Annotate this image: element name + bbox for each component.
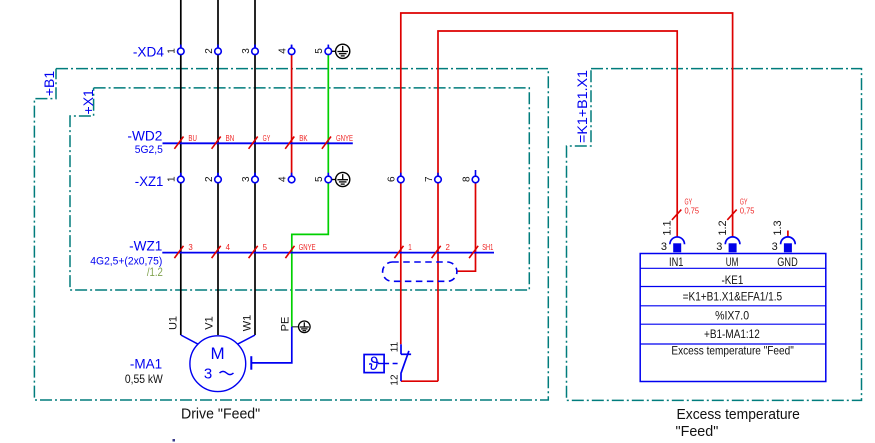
svg-text:4: 4: [277, 176, 288, 182]
svg-text:1: 1: [167, 176, 178, 182]
cable mark BU: [174, 133, 197, 149]
svg-text:PE: PE: [280, 317, 292, 332]
cable mark BK: [285, 133, 308, 149]
svg-text:UM: UM: [726, 255, 739, 269]
svg-text:8: 8: [461, 176, 472, 182]
cable mark 3: [174, 242, 193, 258]
cable mark 5: [249, 242, 268, 258]
terminal XZ1:8: [461, 170, 479, 183]
svg-text:-XZ1: -XZ1: [135, 173, 164, 189]
svg-text:3: 3: [204, 366, 212, 383]
terminal XZ1:2: [204, 173, 222, 183]
svg-text:7: 7: [424, 176, 435, 182]
thermal contact: [401, 344, 411, 381]
svg-text:3: 3: [716, 241, 722, 253]
KE1 divider 1: [640, 267, 826, 269]
wire 5 green XD4:5 to XZ1:5: [327, 47, 329, 177]
terminal XD4:2: [204, 45, 222, 55]
svg-text:IN1: IN1: [669, 255, 684, 269]
cable mark BN: [212, 133, 235, 149]
KE1 divider 3: [640, 305, 826, 307]
motor tilde: [220, 371, 234, 374]
motor PE terminal bar: [250, 356, 252, 370]
svg-text:+B1-MA1:12: +B1-MA1:12: [704, 327, 760, 341]
location box =K1+B1.X1: [567, 69, 862, 401]
svg-text:%IX7.0: %IX7.0: [715, 308, 749, 322]
svg-text:V1: V1: [203, 316, 215, 329]
svg-text:5: 5: [314, 176, 325, 182]
PE symbol at XZ1: [332, 172, 350, 186]
cable mark GNYE: [322, 133, 353, 149]
terminal XZ1:5: [314, 176, 332, 183]
svg-text:6: 6: [387, 176, 398, 182]
svg-text:1.2: 1.2: [717, 220, 729, 235]
svg-text:GNYE: GNYE: [299, 242, 316, 252]
svg-text:ϑ: ϑ: [369, 354, 379, 374]
svg-text:Excess temperature: Excess temperature: [677, 407, 800, 423]
svg-text:=K1+B1.X1: =K1+B1.X1: [574, 70, 590, 143]
svg-text:-XD4: -XD4: [133, 44, 164, 60]
motor earth connector: [292, 326, 299, 328]
svg-text:3: 3: [188, 242, 193, 252]
svg-text:M: M: [211, 344, 225, 363]
svg-text:5G2,5: 5G2,5: [135, 144, 163, 156]
svg-text:+X1: +X1: [80, 89, 96, 115]
KE1 divider 2: [640, 286, 826, 288]
svg-text:SH1: SH1: [482, 242, 493, 252]
svg-text:3: 3: [772, 241, 778, 253]
svg-text:2: 2: [204, 176, 215, 182]
motor -MA1 leads blue: [181, 335, 255, 344]
wire L1 black vertical: [180, 0, 182, 335]
wire red loop XZ1:6 to KE1 UM and thermal contact 11: [401, 13, 733, 344]
svg-text:Excess temperature "Feed": Excess temperature "Feed": [671, 344, 793, 358]
device box -KE1: [640, 254, 826, 382]
cable mark SH1: [469, 242, 493, 258]
cable mark GY: [249, 133, 271, 149]
svg-text:1: 1: [167, 48, 178, 54]
svg-text:5: 5: [314, 48, 325, 54]
wire GNYE green XZ1:5 to motor PE: [292, 183, 329, 327]
pin 1.1: [661, 220, 685, 253]
svg-text:3: 3: [661, 241, 667, 253]
stray dot: [173, 439, 176, 442]
thermal sensor F box: [364, 354, 384, 374]
location box +X1: [70, 88, 529, 290]
cable -WZ1 line: [162, 252, 494, 254]
svg-text:BN: BN: [226, 133, 235, 143]
svg-text:2: 2: [204, 48, 215, 54]
svg-text:=K1+B1.X1&EFA1/1.5: =K1+B1.X1&EFA1/1.5: [683, 290, 783, 304]
svg-text:1.1: 1.1: [661, 220, 673, 235]
thermal dashed link: [384, 363, 400, 365]
svg-text:12: 12: [390, 374, 401, 386]
svg-text:-MA1: -MA1: [130, 355, 163, 371]
wire L3 black vertical: [254, 0, 256, 335]
pin 1.2: [716, 220, 740, 253]
cable mark GNYE2: [285, 242, 315, 258]
svg-text:4: 4: [226, 242, 231, 252]
svg-text:BU: BU: [188, 133, 197, 143]
svg-text:GY: GY: [263, 133, 271, 143]
motor -MA1 circle: [190, 336, 246, 392]
svg-text:GNYE: GNYE: [336, 133, 353, 143]
svg-text:+B1: +B1: [41, 71, 57, 97]
svg-text:0,75: 0,75: [740, 205, 755, 215]
wire red loop XZ1:7 to KE1 IN1 and thermal bottom: [438, 31, 677, 381]
svg-text:GND: GND: [777, 255, 798, 269]
motor earth symbol: [299, 321, 311, 333]
terminal XZ1:4: [277, 176, 295, 183]
KE1 divider 4: [640, 323, 826, 325]
terminal connection stubs: [181, 45, 438, 177]
pin 1.3: [772, 220, 796, 253]
PE symbol at XD4: [332, 44, 350, 58]
KE1 divider 5: [640, 343, 826, 345]
terminal XZ1:6: [387, 176, 405, 183]
svg-text:-WZ1: -WZ1: [129, 237, 162, 253]
shield capsule: [383, 262, 457, 281]
terminal XD4:3: [241, 45, 258, 55]
svg-text:-KE1: -KE1: [722, 273, 744, 287]
wire red shield drain: [457, 183, 476, 272]
wire 4 red XD4:4 to XZ1:4: [291, 47, 293, 177]
svg-text:0,55 kW: 0,55 kW: [125, 372, 163, 386]
svg-text:-WD2: -WD2: [127, 127, 162, 143]
svg-text:Drive "Feed": Drive "Feed": [181, 406, 260, 422]
svg-text:U1: U1: [168, 316, 180, 330]
terminal XD4:1: [167, 45, 185, 55]
wire mark GY 0,75 pin1.2: [727, 197, 754, 220]
svg-text:0,75: 0,75: [685, 205, 700, 215]
wire mark GY 0,75 pin1.1: [672, 197, 699, 220]
cable -WD2 line: [163, 142, 353, 144]
svg-text:3: 3: [241, 176, 252, 182]
svg-text:W1: W1: [241, 315, 253, 332]
terminal XD4:4: [277, 45, 295, 55]
wire red bottom link contact 12: [401, 380, 438, 382]
wire red stub GND pin 1.3: [787, 231, 789, 237]
svg-text:3: 3: [241, 48, 252, 54]
cable mark 1: [394, 242, 412, 258]
wire L2 black vertical: [217, 0, 219, 335]
terminal XZ1:3: [241, 173, 258, 183]
location box +B1: [34, 69, 548, 400]
svg-text:1: 1: [408, 242, 412, 252]
terminal XD4:5: [314, 45, 332, 55]
svg-text:11: 11: [390, 341, 401, 352]
svg-text:2: 2: [446, 242, 451, 252]
svg-text:4: 4: [277, 48, 288, 54]
svg-text:BK: BK: [299, 133, 308, 143]
svg-text:1.3: 1.3: [772, 220, 784, 235]
wire blue PE to motor: [252, 327, 292, 363]
terminal XZ1:1: [167, 173, 185, 183]
svg-text:5: 5: [263, 242, 268, 252]
terminal XZ1:7: [424, 176, 442, 183]
cable mark 4: [212, 242, 231, 258]
svg-text:/1.2: /1.2: [147, 265, 163, 279]
cable mark 2: [432, 242, 451, 258]
svg-text:"Feed": "Feed": [676, 424, 719, 440]
